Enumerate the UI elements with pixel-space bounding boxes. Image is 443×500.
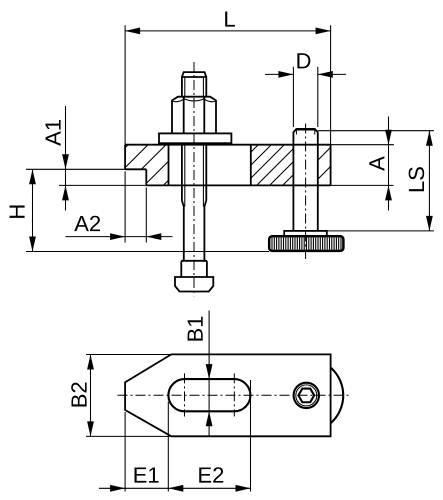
hatch right block	[318, 147, 331, 179]
hex nut chamfer arcs	[173, 99, 216, 102]
dimension A2	[65, 172, 172, 243]
dimension D	[265, 53, 346, 127]
dimension LS	[318, 131, 434, 231]
knurled nut arc top view	[331, 368, 343, 423]
dimension L	[125, 12, 331, 145]
horizontal center line top view	[118, 394, 350, 396]
clamp bar side view outline	[125, 145, 331, 186]
hex socket	[298, 389, 314, 403]
top view outline	[125, 354, 331, 436]
bolt head	[175, 277, 213, 292]
slot arc center ticks	[185, 373, 235, 416]
stud thread outer lines	[182, 143, 206, 206]
support screw flange	[284, 231, 327, 236]
knurling lines	[272, 238, 341, 250]
socket screw outer circle	[294, 383, 319, 408]
dimension B2	[71, 355, 171, 437]
slot edges side view	[169, 145, 251, 186]
hex nut	[172, 97, 216, 134]
dimension A	[331, 117, 394, 211]
dimension B1	[188, 311, 213, 438]
bolt center line	[193, 62, 195, 296]
hatch middle block	[251, 145, 294, 185]
stud bolt top cap	[182, 72, 206, 97]
dimension A1	[46, 106, 147, 211]
washer	[159, 133, 231, 143]
dimensions E1 E2	[99, 380, 251, 492]
hatch left block	[125, 145, 168, 185]
support screw body	[293, 129, 317, 231]
bolt collar	[181, 261, 207, 277]
knurled nut	[269, 236, 343, 251]
stud shank	[181, 207, 207, 261]
support screw center line	[305, 124, 307, 260]
socket screw inner circle	[296, 385, 317, 406]
stud thread inner lines	[185, 78, 204, 207]
dimension H	[10, 169, 270, 251]
slot top view	[168, 379, 250, 411]
